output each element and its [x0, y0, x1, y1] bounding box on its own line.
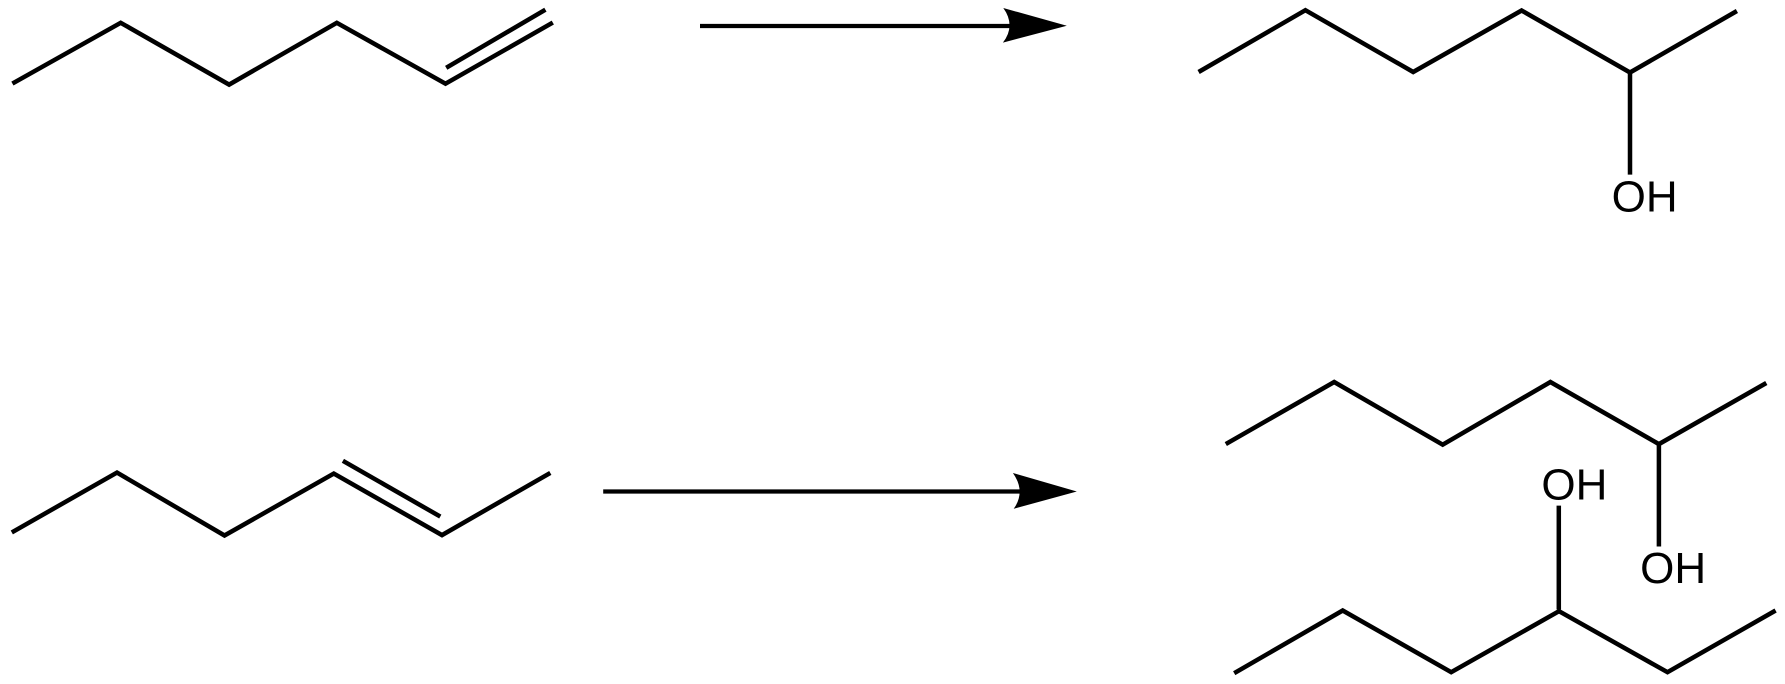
svg-text:OH: OH [1640, 544, 1706, 593]
svg-text:OH: OH [1541, 461, 1607, 510]
svg-text:OH: OH [1612, 173, 1678, 222]
